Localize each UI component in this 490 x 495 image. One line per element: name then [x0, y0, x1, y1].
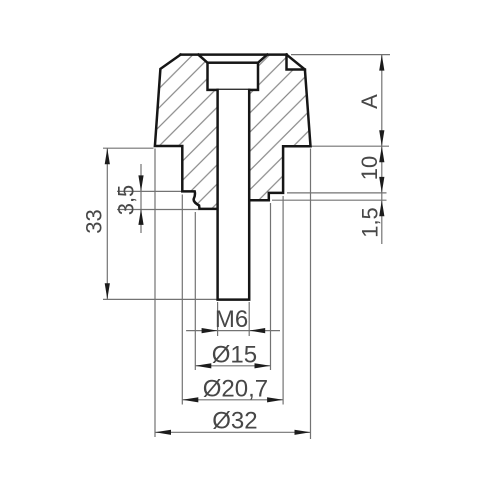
- svg-text:M6: M6: [215, 306, 248, 333]
- svg-text:A: A: [357, 94, 382, 109]
- svg-text:Ø20,7: Ø20,7: [203, 375, 268, 402]
- svg-text:Ø15: Ø15: [212, 342, 257, 369]
- svg-text:33: 33: [82, 209, 107, 233]
- svg-text:Ø32: Ø32: [212, 407, 257, 434]
- svg-text:1,5: 1,5: [358, 207, 383, 238]
- svg-text:10: 10: [357, 156, 382, 180]
- svg-text:3,5: 3,5: [114, 185, 139, 216]
